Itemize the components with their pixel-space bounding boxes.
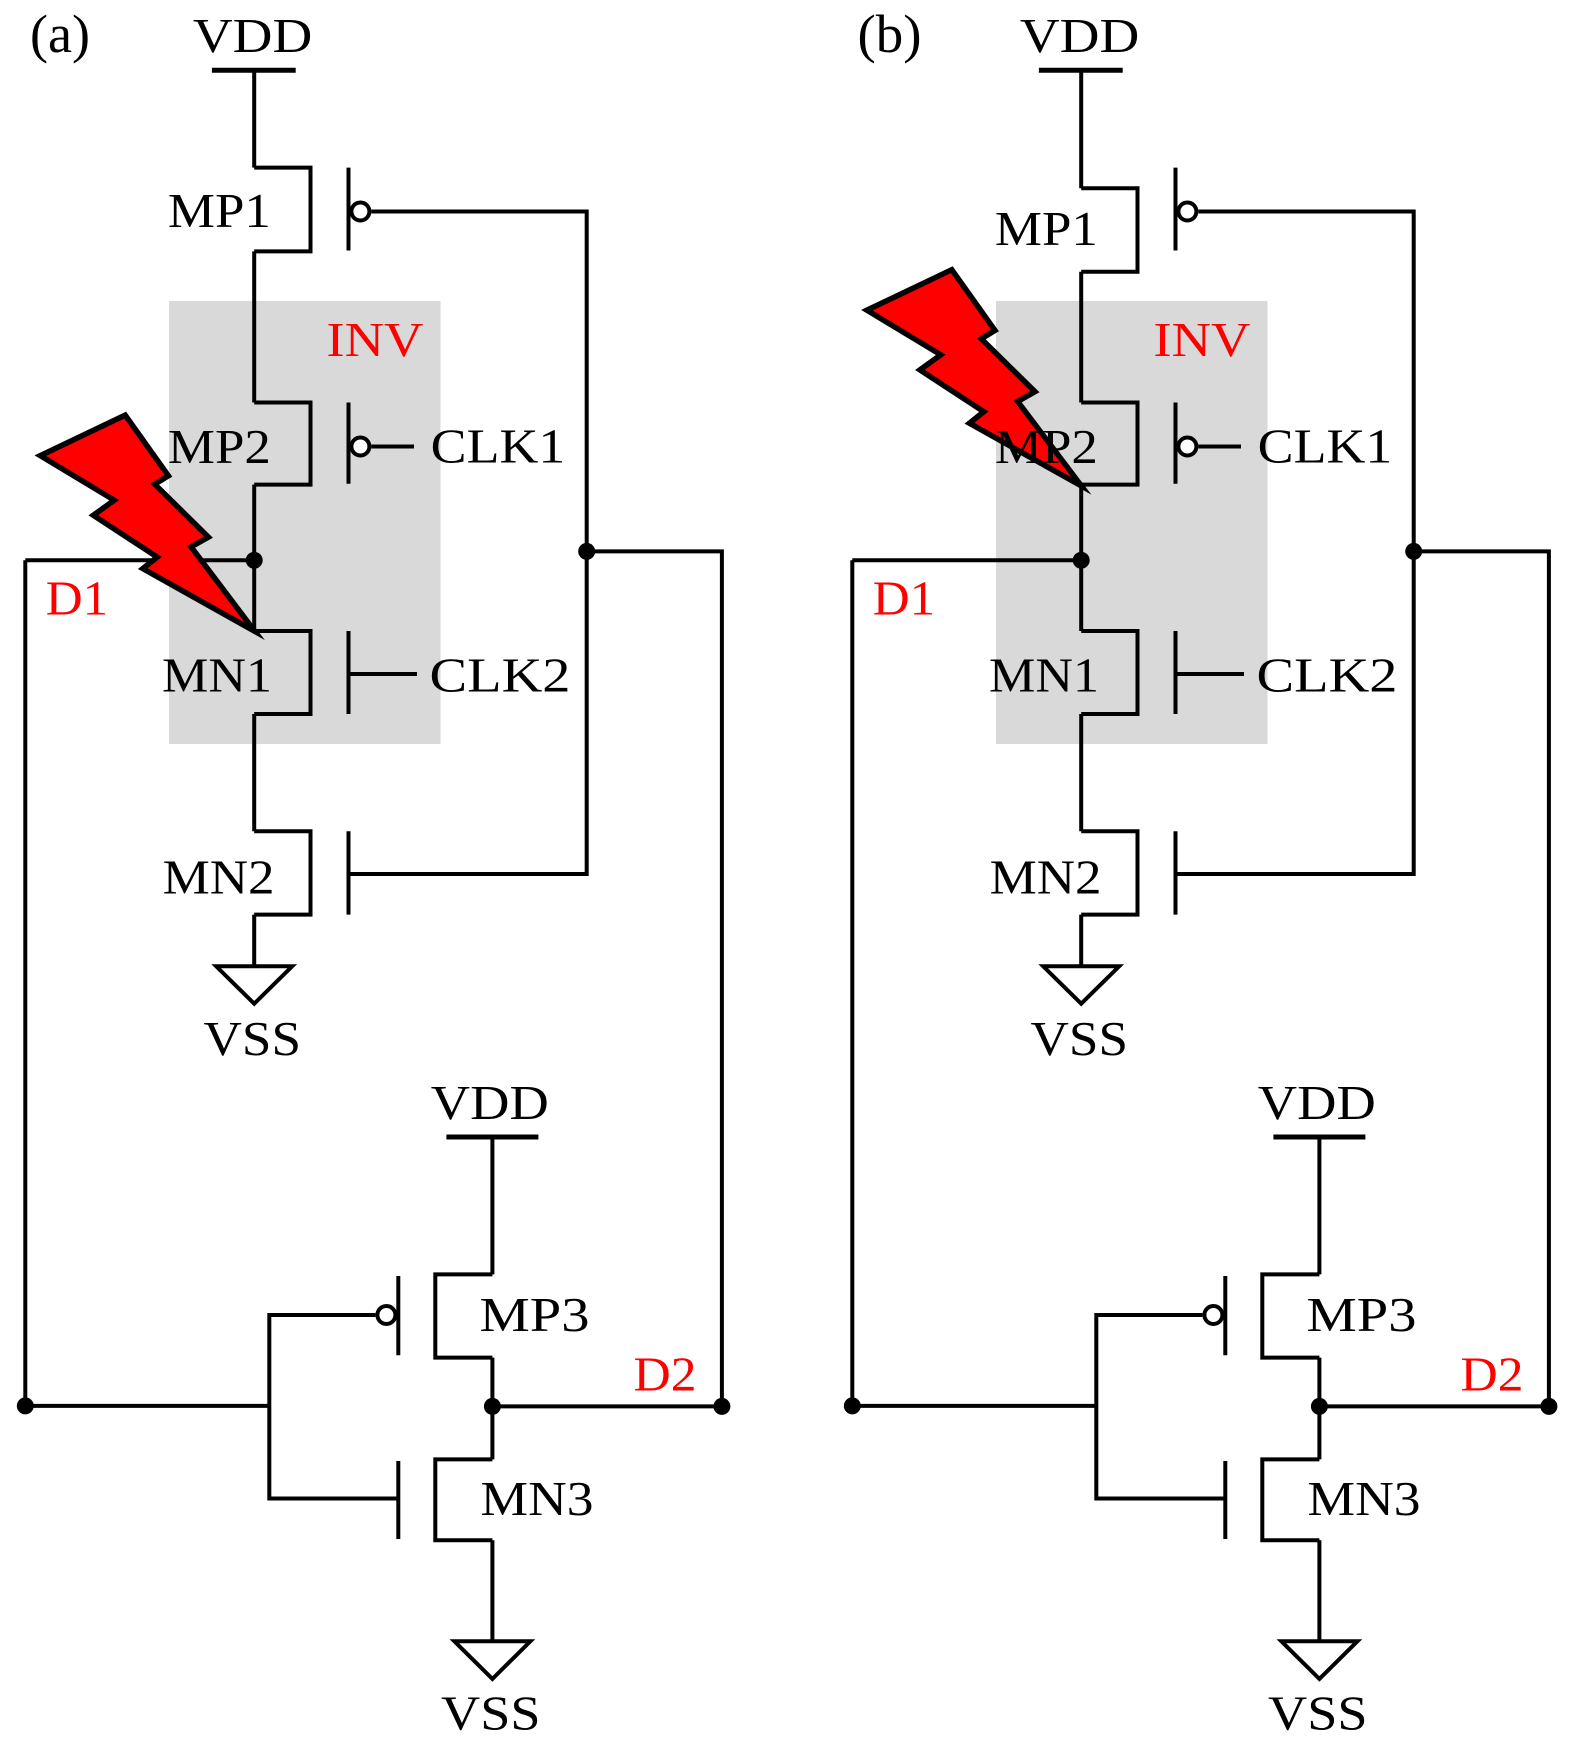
wire D1 horizontal (a) [25, 558, 254, 562]
VSS ground symbol first stage (b) [1043, 966, 1119, 1003]
SEU strike lightning bolt (b) [867, 270, 1082, 486]
svg-text:D1: D1 [46, 571, 109, 626]
wire MP1 drain to MP2 source (b) [1079, 272, 1083, 403]
dot at left rail corner (a) [17, 1397, 34, 1414]
dot D2 right end (b) [1540, 1398, 1557, 1415]
feedback rail junction dot (b) [1405, 543, 1422, 560]
VDD supply bar second stage (a) [446, 1135, 538, 1140]
svg-text:VSS: VSS [204, 1011, 302, 1066]
MP1 gate bar (b) [1174, 168, 1178, 251]
svg-text:INV: INV [326, 312, 423, 367]
MP3 gate bubble (b) [1204, 1306, 1222, 1324]
svg-text:MN3: MN3 [481, 1471, 594, 1526]
wire D2 horizontal (a) [492, 1404, 722, 1408]
transistor MN2 (a) channel [254, 831, 310, 914]
svg-text:MP2: MP2 [995, 419, 1098, 474]
VDD supply bar second stage (b) [1273, 1135, 1365, 1140]
transistor MP3 (a) channel [435, 1274, 492, 1357]
feedback net: MP1 gate to MN2 gate (a) [349, 212, 587, 875]
node D2 junction dot (a) [484, 1398, 501, 1415]
svg-text:CLK1: CLK1 [1258, 419, 1393, 474]
transistor MN3 (b) channel [1262, 1459, 1319, 1540]
svg-text:INV: INV [1153, 312, 1250, 367]
left rail D1 down to inverter input (b) [852, 560, 1096, 1406]
svg-text:(a): (a) [30, 4, 90, 64]
MP1 gate bar (a) [347, 168, 351, 251]
svg-text:MN1: MN1 [989, 648, 1099, 703]
wire MP2 drain through node to MN1 drain (a) [252, 485, 256, 631]
wire MN3 source to VSS (a) [490, 1540, 494, 1641]
svg-text:D2: D2 [634, 1347, 697, 1402]
MP2 gate bubble (b) [1178, 438, 1196, 456]
wire D2 horizontal (b) [1319, 1404, 1549, 1408]
svg-text:MN3: MN3 [1308, 1471, 1421, 1526]
wire MP1 drain to MP2 source (a) [252, 251, 256, 402]
CLK1 gate stub (a) [371, 445, 414, 449]
wire MP3 drain to MN3 drain (a) [490, 1358, 494, 1460]
node D1 junction dot (b) [1073, 552, 1090, 569]
transistor MN2 (b) channel [1081, 831, 1137, 914]
svg-text:MP1: MP1 [995, 201, 1098, 256]
left rail D1 down to inverter input (a) [25, 560, 269, 1406]
MN1 gate bar (a) [347, 631, 351, 714]
svg-text:D2: D2 [1461, 1347, 1524, 1402]
CLK1 gate stub (b) [1198, 445, 1241, 449]
wire VDD to MP1 source (b) [1079, 70, 1083, 188]
MP3 gate bar (b) [1223, 1276, 1227, 1355]
dot at left rail corner (b) [844, 1397, 861, 1414]
wire MN2 source to VSS (a) [252, 915, 256, 967]
inverter input net: MP3 gate to MN3 gate (a) [269, 1315, 398, 1499]
node D2 junction dot (b) [1311, 1398, 1328, 1415]
svg-text:CLK1: CLK1 [431, 419, 566, 474]
VSS ground symbol second stage (a) [454, 1641, 530, 1679]
svg-text:MN2: MN2 [990, 849, 1102, 904]
MN2 gate bar (a) [347, 831, 351, 914]
MP1 gate bubble (a) [351, 203, 369, 221]
MP3 gate bar (a) [396, 1276, 400, 1355]
wire VDD to MP3 source (a) [490, 1137, 494, 1274]
VDD supply bar (b) first stage [1039, 68, 1123, 73]
svg-text:VSS: VSS [1031, 1011, 1129, 1066]
VSS ground symbol second stage (b) [1281, 1641, 1357, 1679]
MP2 gate bubble (a) [351, 438, 369, 456]
feedback rail junction dot (a) [578, 543, 595, 560]
svg-text:CLK2: CLK2 [430, 648, 571, 703]
MP1 gate bubble (b) [1178, 203, 1196, 221]
wire MP3 drain to MN3 drain (b) [1317, 1358, 1321, 1460]
wire MN3 source to VSS (b) [1317, 1540, 1321, 1641]
MP3 gate bubble (a) [377, 1306, 395, 1324]
inverter region highlight box (a) [169, 301, 441, 744]
svg-text:MP3: MP3 [480, 1287, 590, 1342]
svg-text:MP3: MP3 [1307, 1287, 1417, 1342]
svg-text:MP1: MP1 [168, 183, 271, 238]
MN2 gate bar (b) [1174, 831, 1178, 914]
transistor MP1 (a) channel [254, 168, 310, 252]
dot D2 right end (a) [713, 1398, 730, 1415]
wire MN1 source to MN2 drain (a) [252, 714, 256, 831]
svg-text:VSS: VSS [441, 1686, 541, 1741]
transistor MN1 (b) channel [1081, 631, 1137, 714]
node D1 junction dot (a) [246, 552, 263, 569]
transistor MP3 (b) channel [1262, 1274, 1319, 1357]
svg-text:D1: D1 [873, 571, 936, 626]
transistor MN1 (a) channel [254, 631, 310, 714]
MN3 gate bar (b) [1223, 1461, 1227, 1539]
transistor MP2 (a) channel [254, 403, 310, 485]
svg-text:VDD: VDD [193, 8, 313, 63]
VSS ground symbol first stage (a) [216, 966, 292, 1003]
CLK2 gate stub (a) [349, 672, 418, 676]
branch wire to D2 rail (a) [587, 551, 722, 1406]
transistor MP1 (b) channel [1081, 188, 1137, 272]
MP2 gate bar (a) [347, 403, 351, 484]
CLK2 gate stub (b) [1176, 672, 1245, 676]
svg-text:VDD: VDD [431, 1075, 549, 1130]
svg-text:VDD: VDD [1258, 1075, 1376, 1130]
wire VDD to MP1 source (a) [252, 70, 256, 167]
wire MN1 source to MN2 drain (b) [1079, 714, 1083, 831]
MP2 gate bar (b) [1174, 403, 1178, 484]
svg-text:(b): (b) [858, 4, 922, 64]
transistor MN3 (a) channel [435, 1459, 492, 1540]
branch wire to D2 rail (b) [1414, 551, 1549, 1406]
transistor MP2 (b) channel [1081, 403, 1137, 485]
feedback net: MP1 gate to MN2 gate (b) [1176, 212, 1414, 875]
svg-text:VDD: VDD [1020, 8, 1140, 63]
VDD supply bar (a) first stage [212, 68, 296, 73]
svg-text:MN1: MN1 [162, 648, 272, 703]
svg-text:CLK2: CLK2 [1257, 648, 1398, 703]
MN1 gate bar (b) [1174, 631, 1178, 714]
inverter region highlight box (b) [996, 301, 1268, 744]
wire VDD to MP3 source (b) [1317, 1137, 1321, 1274]
SEU strike lightning bolt (a) [40, 415, 255, 631]
wire MP2 drain through node to MN1 drain (b) [1079, 485, 1083, 631]
wire MN2 source to VSS (b) [1079, 915, 1083, 967]
svg-text:MN2: MN2 [163, 849, 275, 904]
inverter input net: MP3 gate to MN3 gate (b) [1096, 1315, 1225, 1499]
svg-text:VSS: VSS [1268, 1686, 1368, 1741]
svg-text:MP2: MP2 [168, 419, 271, 474]
wire D1 horizontal (b) [852, 558, 1081, 562]
MN3 gate bar (a) [396, 1461, 400, 1539]
